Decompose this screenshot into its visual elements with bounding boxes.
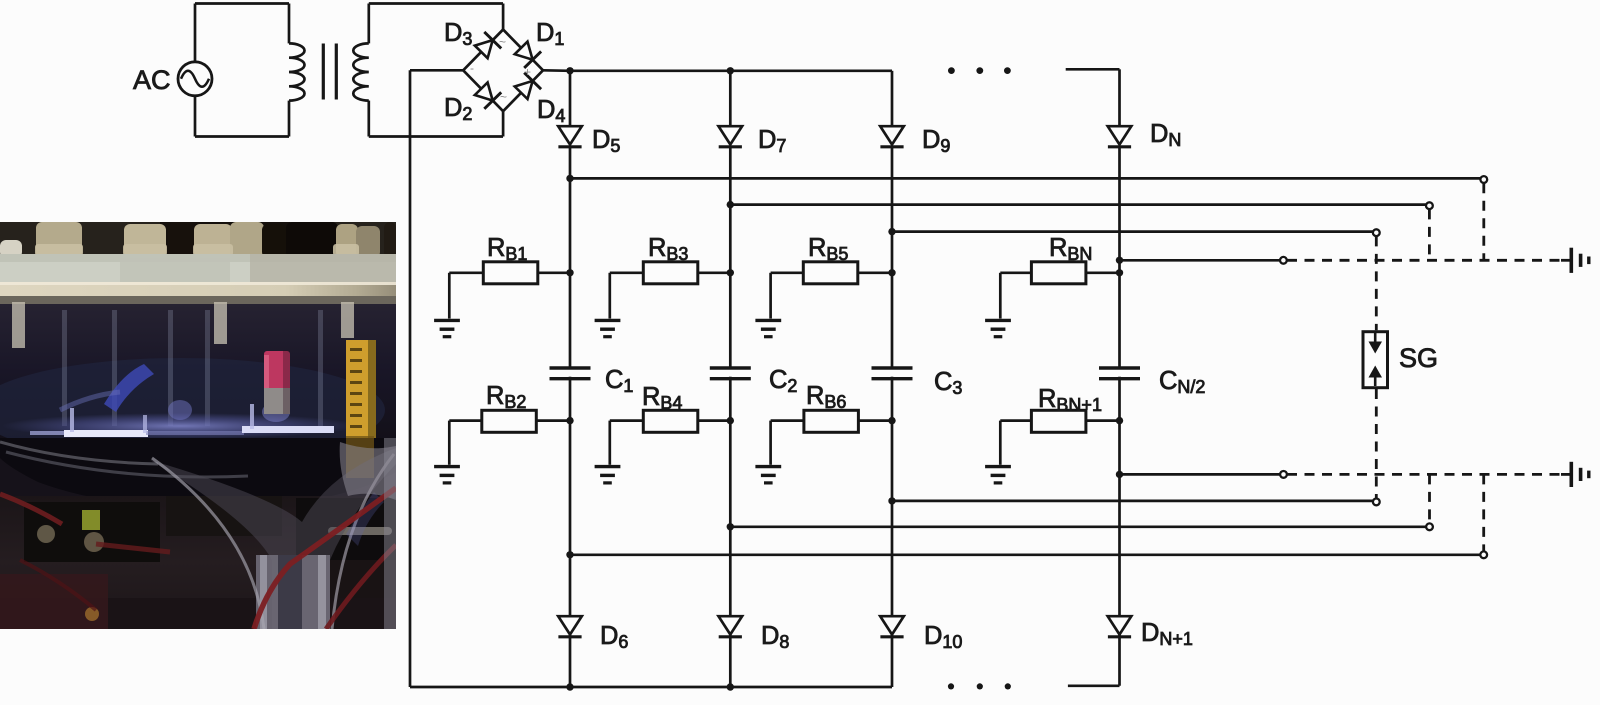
svg-text:SG: SG [1399,343,1438,373]
svg-text:~: ~ [500,90,507,104]
svg-text:-: - [470,61,474,75]
svg-text:+: + [524,65,531,79]
svg-text:AC: AC [133,65,171,95]
svg-text:~: ~ [499,35,506,49]
